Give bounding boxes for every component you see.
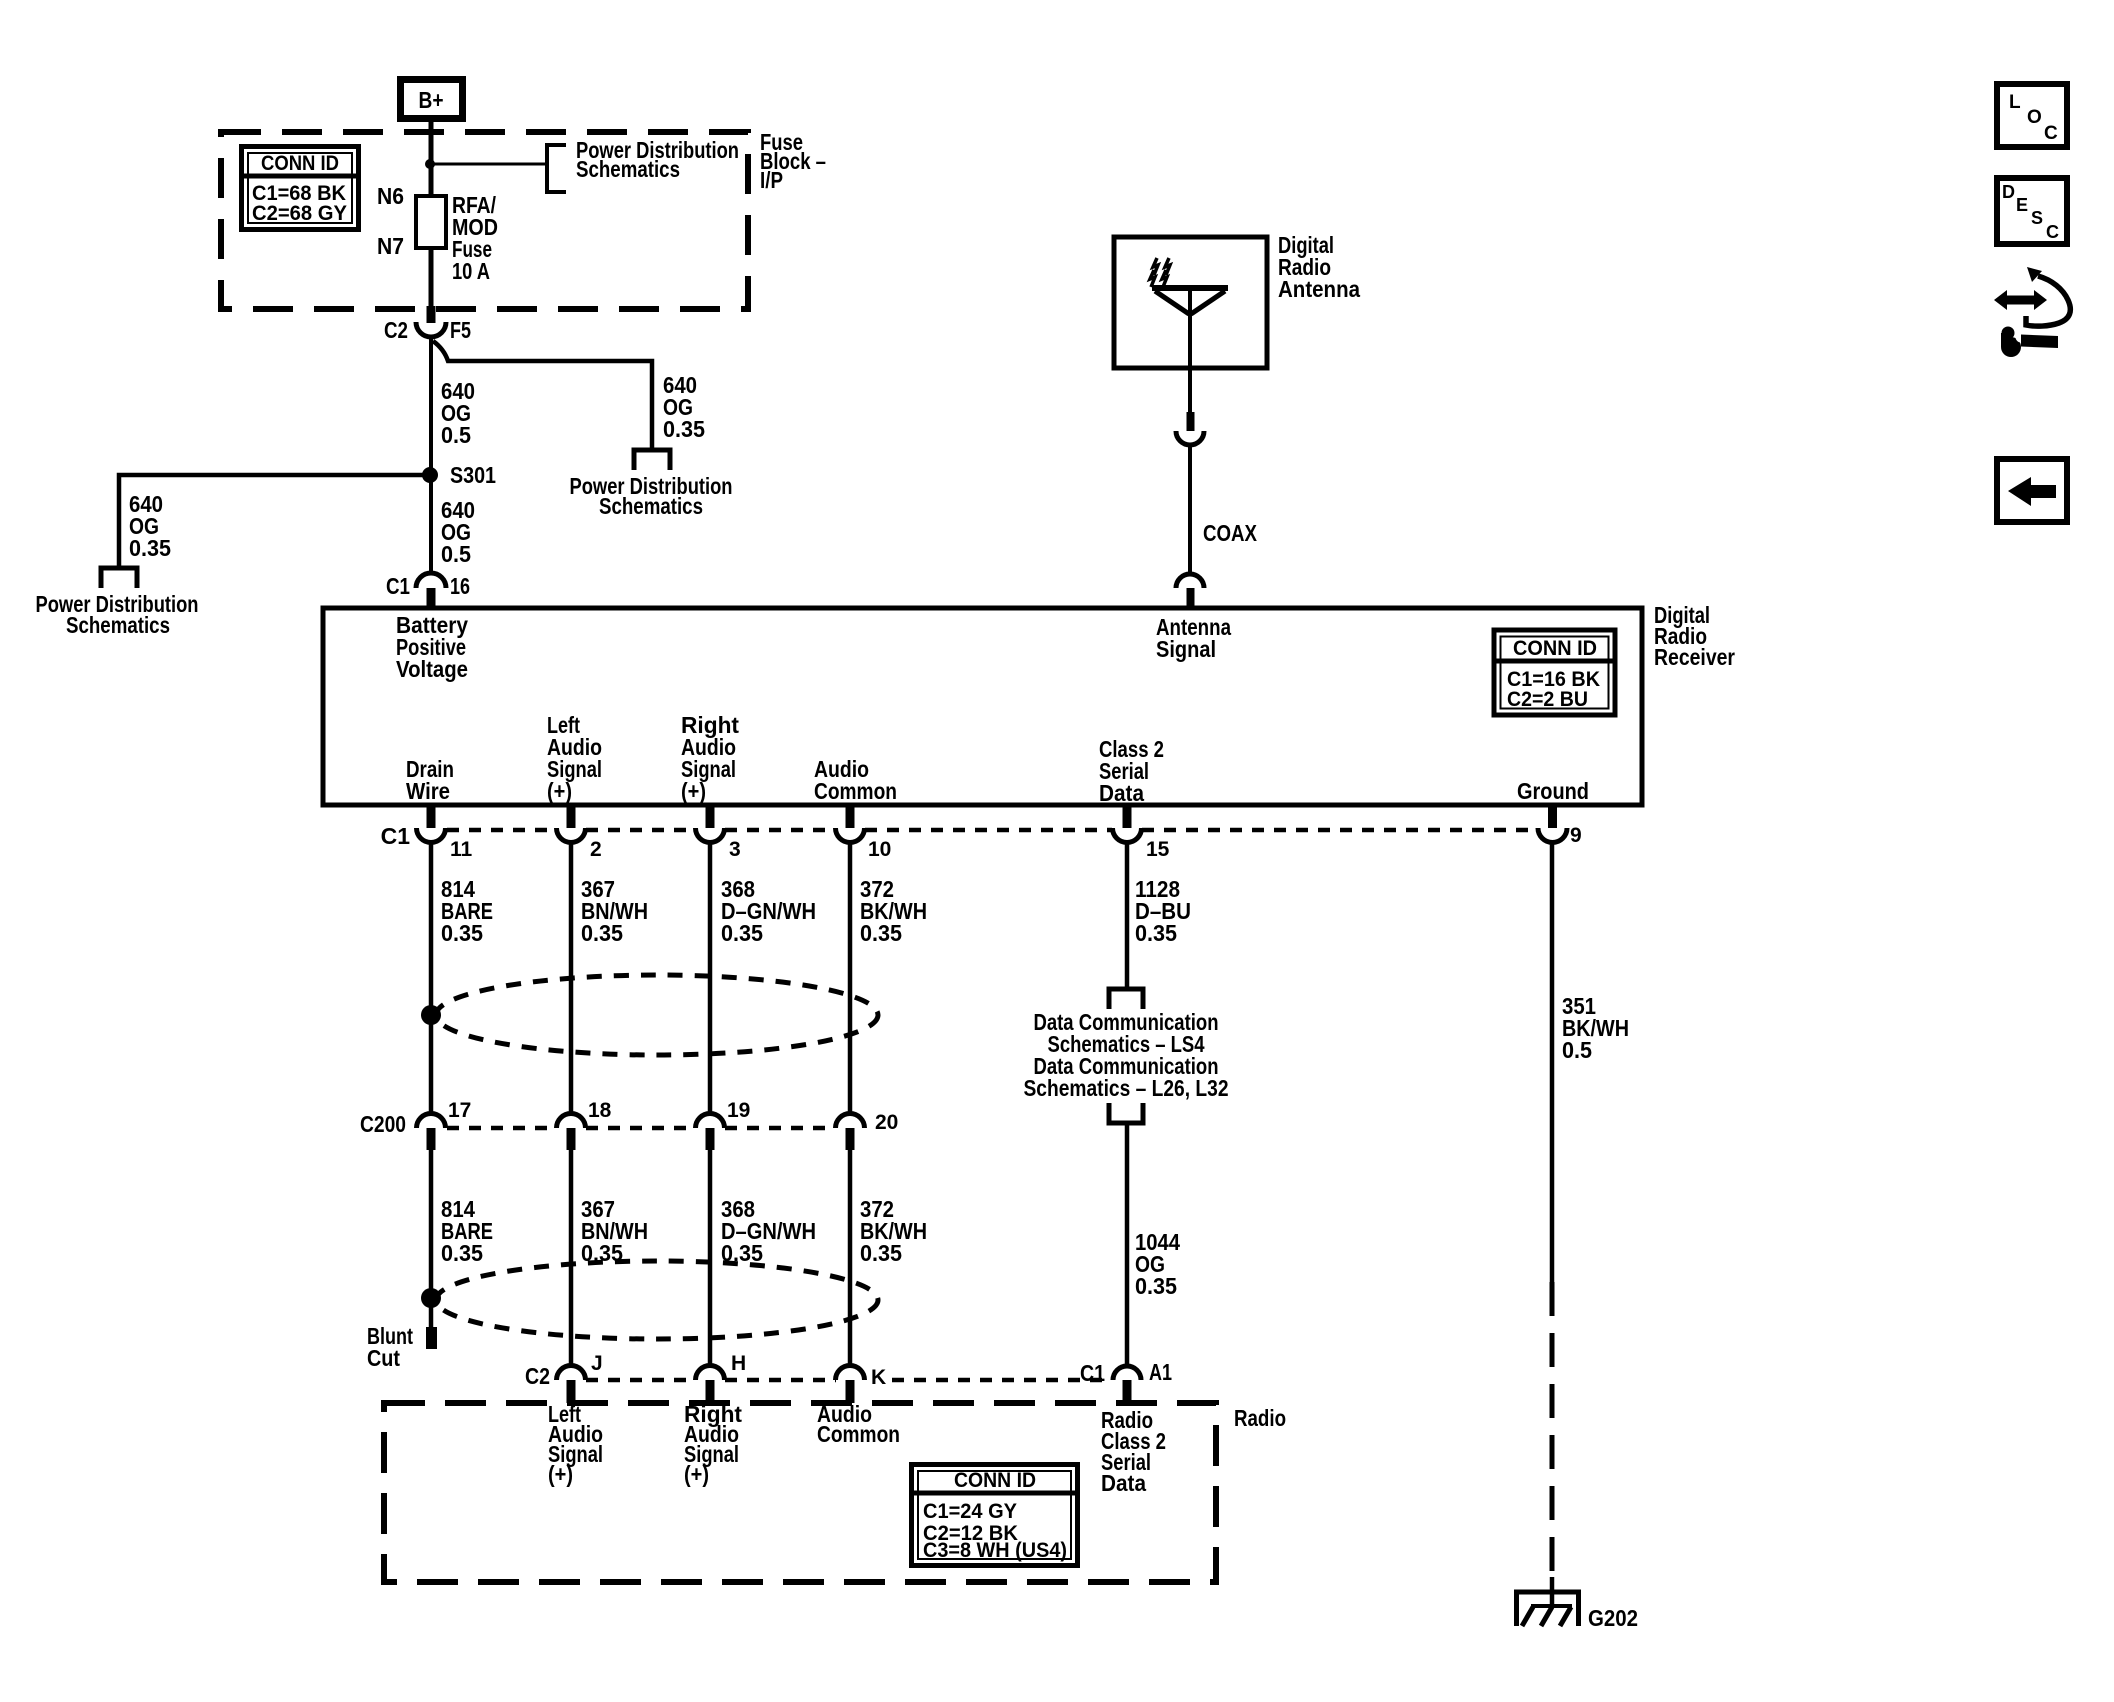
CONN ID table (fuse block) — [241, 147, 359, 230]
label Power Distribution Schematics (fuse block) — [576, 137, 739, 182]
connector pin 2 — [557, 806, 602, 861]
svg-text:0.35: 0.35 — [581, 920, 623, 946]
svg-text:Schematics – L26, L32: Schematics – L26, L32 — [1024, 1075, 1229, 1101]
connector C1 16 (battery feed into receiver) — [386, 573, 470, 609]
wire 351 BK/WH (ground, solid) — [1550, 842, 1555, 1282]
pin label Radio Class 2 Serial Data — [1101, 1407, 1166, 1496]
label 368 D-GN/WH 0.35 (lower) — [721, 1196, 816, 1266]
label 372 BK/WH 0.35 (lower) — [860, 1196, 927, 1266]
svg-text:Data: Data — [1099, 780, 1144, 806]
coax wire — [1188, 445, 1192, 574]
sidebar icon LOC — [1997, 84, 2067, 147]
svg-text:E: E — [2016, 195, 2028, 215]
svg-text:A1: A1 — [1149, 1359, 1172, 1385]
wire 814 BARE (upper drain) — [429, 842, 434, 1114]
svg-text:Common: Common — [814, 778, 897, 804]
label 640 OG 0.5 (upper) — [441, 378, 475, 448]
svg-text:11: 11 — [450, 838, 473, 861]
svg-text:0.35: 0.35 — [441, 1240, 483, 1266]
svg-text:10: 10 — [868, 838, 891, 861]
label 367 BN/WH 0.35 (lower) — [581, 1196, 648, 1266]
svg-text:0.5: 0.5 — [1562, 1037, 1592, 1063]
svg-text:C1: C1 — [381, 823, 411, 849]
fuse block dashed box — [221, 132, 748, 309]
connector C200 pin 17 — [417, 1099, 472, 1150]
svg-text:N6: N6 — [377, 183, 404, 209]
svg-text:Cut: Cut — [367, 1345, 400, 1371]
svg-text:16: 16 — [450, 573, 470, 599]
wire B+ to fuse N6 — [429, 122, 434, 196]
coax connector (antenna side) — [1176, 412, 1204, 445]
wire 368 D-GN/WH (lower) — [708, 1150, 713, 1366]
svg-text:(+): (+) — [681, 778, 706, 804]
off-page bracket (power distribution, right) — [634, 450, 670, 470]
svg-text:15: 15 — [1146, 838, 1170, 861]
wire 372 BK/WH (lower) — [848, 1150, 853, 1366]
wire antenna to coax connector — [1188, 368, 1192, 414]
Digital Radio Receiver box — [323, 608, 1642, 805]
sidebar icon swap/tools — [1994, 267, 2070, 357]
svg-text:0.35: 0.35 — [129, 535, 171, 561]
branch wire 640 OG 0.35 (right) — [433, 341, 652, 448]
svg-text:Schematics: Schematics — [599, 493, 703, 519]
svg-text:G202: G202 — [1588, 1605, 1638, 1631]
svg-text:O: O — [2027, 107, 2042, 128]
branch wire 640 OG 0.35 (left) — [119, 475, 430, 566]
connector radio pin H — [696, 1352, 747, 1403]
connector pin 3 — [696, 806, 741, 861]
splice S301 — [422, 467, 438, 483]
connector C200 pin 20 — [836, 1111, 899, 1150]
label Digital Radio Receiver — [1654, 602, 1735, 670]
svg-text:CONN ID: CONN ID — [261, 152, 339, 175]
wire tap to power distribution reference — [431, 163, 546, 166]
shield ellipse (upper) — [436, 975, 878, 1055]
connector pin 10 — [836, 806, 892, 861]
svg-text:2: 2 — [590, 838, 602, 861]
label Power Distribution Schematics (right) — [570, 473, 733, 519]
svg-text:9: 9 — [1570, 824, 1582, 847]
pin label Audio Common (radio) — [817, 1401, 900, 1447]
label 1128 D-BU 0.35 — [1135, 876, 1191, 946]
wire drain to blunt cut — [429, 1298, 434, 1327]
CONN ID table (receiver) — [1492, 630, 1616, 715]
wire class 2 serial data (pin 15 to reference) — [1125, 842, 1130, 987]
power symbol B+ — [401, 80, 463, 119]
antenna symbol — [1150, 258, 1228, 368]
wire 640 OG 0.5 (upper) — [429, 337, 433, 476]
off-page bracket (power distribution, left) — [101, 568, 137, 588]
connector row C2 radio (dashed) — [525, 1363, 1112, 1389]
svg-text:0.35: 0.35 — [663, 416, 705, 442]
pin label Antenna Signal — [1156, 614, 1231, 662]
label 367 BN/WH 0.35 (upper) — [581, 876, 648, 946]
off-page bracket (data communication, upper) — [1109, 989, 1143, 1009]
label Fuse Block - I/P — [760, 129, 826, 193]
svg-text:C1: C1 — [386, 573, 410, 599]
wire 367 BN/WH (upper) — [569, 842, 574, 1114]
pin label Right Audio Signal (+) — [681, 712, 739, 804]
connector pin 15 — [1113, 806, 1170, 861]
svg-text:C200: C200 — [360, 1111, 406, 1137]
connector C2 F5 — [384, 306, 471, 343]
Radio dashed box — [384, 1403, 1216, 1582]
CONN ID table (radio) — [909, 1465, 1079, 1566]
svg-text:0.35: 0.35 — [860, 1240, 902, 1266]
svg-text:0.5: 0.5 — [441, 541, 471, 567]
svg-text:Common: Common — [817, 1421, 900, 1447]
svg-text:Wire: Wire — [406, 778, 450, 804]
connector pin 11 — [417, 806, 473, 861]
svg-text:Schematics: Schematics — [576, 156, 680, 182]
junction: drain to shield (lower) — [421, 1288, 441, 1308]
Digital Radio Antenna box — [1114, 237, 1267, 368]
svg-text:S: S — [2031, 208, 2043, 228]
svg-text:C1=24 GY: C1=24 GY — [923, 1500, 1017, 1523]
svg-text:K: K — [871, 1366, 886, 1389]
label 372 BK/WH 0.35 (upper) — [860, 876, 927, 946]
connector pin 9 — [1538, 806, 1582, 847]
svg-text:3: 3 — [729, 838, 741, 861]
svg-text:Ground: Ground — [1517, 778, 1589, 804]
connector row C200 (dashed) — [360, 1111, 835, 1137]
svg-text:I/P: I/P — [760, 167, 783, 193]
svg-text:B+: B+ — [419, 87, 444, 113]
label Digital Radio Antenna — [1278, 232, 1360, 302]
svg-text:C2: C2 — [384, 317, 408, 343]
svg-text:10 A: 10 A — [452, 258, 490, 284]
wire 372 BK/WH (upper) — [848, 842, 853, 1114]
svg-text:17: 17 — [448, 1099, 471, 1122]
label 640 OG 0.35 (right) — [663, 372, 705, 442]
node: tap junction on B+ feed — [425, 159, 435, 169]
svg-text:0.35: 0.35 — [860, 920, 902, 946]
connector row C1 (receiver bottom, dashed) — [381, 823, 1536, 849]
label Power Distribution Schematics (left) — [36, 591, 199, 638]
svg-text:(+): (+) — [547, 778, 572, 804]
svg-text:C: C — [2046, 222, 2059, 242]
connector C200 pin 19 — [696, 1099, 751, 1150]
connector C200 pin 18 — [557, 1099, 612, 1150]
svg-text:0.35: 0.35 — [1135, 1273, 1177, 1299]
svg-text:N7: N7 — [377, 233, 404, 259]
label 640 OG 0.5 (lower) — [441, 497, 475, 567]
off-page bracket (data communication, lower) — [1109, 1103, 1143, 1123]
svg-text:C1: C1 — [1080, 1360, 1105, 1386]
svg-text:Data: Data — [1101, 1470, 1146, 1496]
svg-text:C2: C2 — [525, 1363, 550, 1389]
svg-text:CONN ID: CONN ID — [954, 1469, 1036, 1492]
svg-text:S301: S301 — [450, 462, 496, 488]
coax connector (receiver side) — [1176, 574, 1204, 609]
off-page bracket (power distribution, fuse block) — [547, 145, 566, 192]
svg-text:18: 18 — [588, 1099, 612, 1122]
svg-text:Radio: Radio — [1234, 1405, 1286, 1431]
svg-text:19: 19 — [727, 1099, 750, 1122]
svg-text:C: C — [2044, 123, 2058, 144]
label 351 BK/WH 0.5 — [1562, 993, 1629, 1063]
wire 1044 OG (reference to radio A1) — [1125, 1123, 1130, 1366]
sidebar icon DESC — [1997, 178, 2067, 244]
svg-text:C2=2 BU: C2=2 BU — [1507, 688, 1588, 711]
label Blunt Cut — [367, 1323, 413, 1371]
fuse RFA/MOD 10A — [377, 183, 498, 284]
svg-text:0.35: 0.35 — [441, 920, 483, 946]
svg-text:C2=68 GY: C2=68 GY — [252, 202, 347, 225]
svg-text:Schematics: Schematics — [66, 612, 170, 638]
svg-text:0.35: 0.35 — [721, 920, 763, 946]
ground G202 — [1514, 1577, 1638, 1631]
wire 367 BN/WH (lower) — [569, 1150, 574, 1366]
label Data Communication Schematics L26, L32 — [1024, 1053, 1229, 1101]
pin label Audio Common — [814, 756, 897, 804]
svg-text:D: D — [2002, 182, 2015, 202]
wire 814 BARE (lower drain) — [429, 1150, 434, 1298]
junction: drain to shield (upper) — [421, 1005, 441, 1025]
label 814 BARE 0.35 (lower) — [441, 1196, 493, 1266]
svg-text:20: 20 — [875, 1111, 898, 1134]
wire 368 D-GN/WH (upper) — [708, 842, 713, 1114]
label Data Communication Schematics LS4 — [1034, 1009, 1219, 1057]
svg-text:J: J — [591, 1352, 603, 1375]
svg-text:F5: F5 — [450, 317, 471, 343]
pin label Class 2 Serial Data — [1099, 736, 1164, 806]
label 368 D-GN/WH 0.35 (upper) — [721, 876, 816, 946]
pin label Drain Wire — [406, 756, 454, 804]
connector C1 A1 (radio) — [1080, 1359, 1172, 1403]
svg-text:H: H — [731, 1352, 746, 1375]
label 640 OG 0.35 (left) — [129, 491, 171, 561]
label 814 BARE 0.35 (upper) — [441, 876, 493, 946]
sidebar icon back arrow — [1997, 459, 2067, 522]
svg-text:Signal: Signal — [1156, 636, 1216, 662]
svg-text:Receiver: Receiver — [1654, 644, 1735, 670]
svg-text:C3=8 WH (US4): C3=8 WH (US4) — [923, 1539, 1067, 1562]
svg-text:CONN ID: CONN ID — [1513, 637, 1597, 660]
pin label Left Audio Signal (+) — [547, 712, 602, 804]
svg-text:COAX: COAX — [1203, 520, 1258, 546]
svg-text:Antenna: Antenna — [1278, 276, 1360, 302]
connector radio pin J — [557, 1352, 603, 1403]
svg-text:L: L — [2009, 92, 2021, 113]
svg-text:0.5: 0.5 — [441, 422, 471, 448]
connector radio pin K — [836, 1366, 887, 1404]
wire 351 BK/WH (ground, dashed continuation) — [1550, 1282, 1555, 1577]
shield ellipse (lower) — [436, 1261, 878, 1339]
pin label Right Audio Signal (+) (radio) — [684, 1401, 742, 1487]
wire 640 OG 0.5 (lower) — [429, 475, 433, 574]
svg-text:(+): (+) — [684, 1461, 709, 1487]
pin label Left Audio Signal (+) (radio) — [548, 1401, 603, 1487]
blunt cut terminal — [426, 1327, 437, 1349]
pin label Battery Positive Voltage — [396, 612, 468, 682]
svg-text:(+): (+) — [548, 1461, 573, 1487]
svg-text:0.35: 0.35 — [1135, 920, 1177, 946]
wire fuse to connector C2 — [429, 248, 434, 308]
svg-text:Voltage: Voltage — [396, 656, 468, 682]
label 1044 OG 0.35 — [1135, 1229, 1180, 1299]
